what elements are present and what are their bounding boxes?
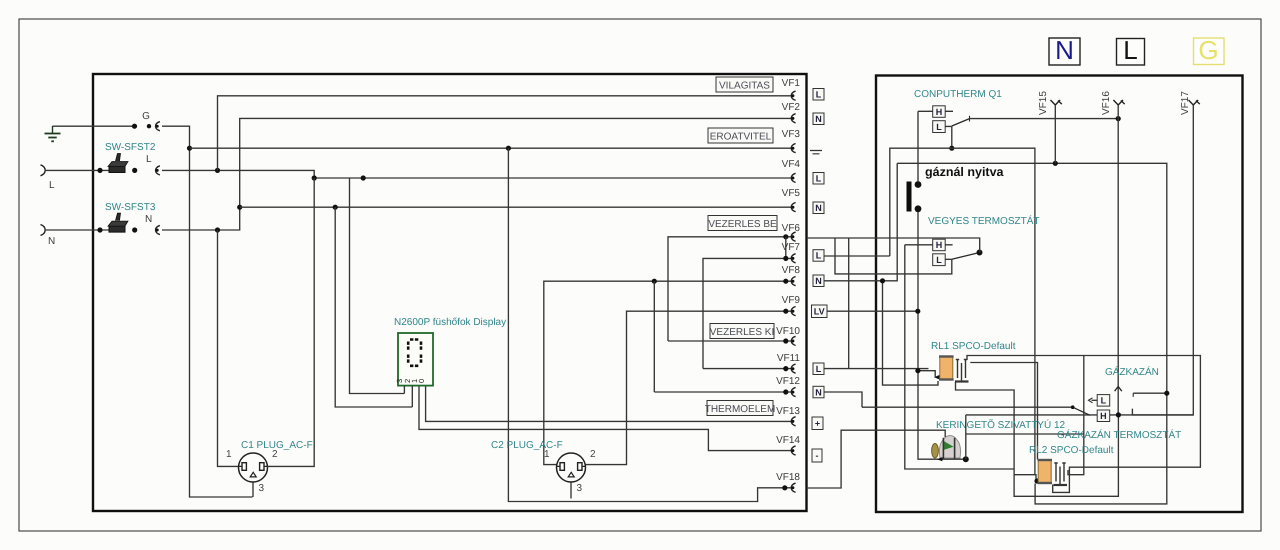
wire: VF7L net across top (y148): [890, 148, 1035, 475]
minus box VF14: [812, 449, 822, 462]
L box: [933, 125, 952, 127]
wire: pump top feed from VF18: [807, 430, 946, 488]
L terminal box (top right): [1117, 35, 1145, 65]
node on y148: [949, 146, 954, 151]
wire: C1 pin2 riser (L net): [267, 178, 314, 466]
svg-text:H: H: [1100, 411, 1107, 421]
svg-text:3: 3: [259, 483, 265, 494]
wire: VEGYES H drop: [905, 245, 1014, 469]
svg-text:EROATVITEL: EROATVITEL: [710, 132, 772, 143]
node VF11: [783, 366, 788, 371]
wire: G net to x189.5 down to bottom: [162, 126, 253, 497]
svg-text:SW-SFST2: SW-SFST2: [105, 142, 156, 153]
earth mark VF3: [810, 151, 822, 154]
svg-text:L: L: [49, 180, 55, 191]
wire: VF18 riser from G net: [508, 148, 791, 501]
ground symbol (earth, top left): [45, 126, 61, 141]
plug C1 PLUG_AC-F: [226, 440, 313, 494]
VF16 terminal: [1101, 91, 1125, 415]
wire: branch to VF11 L: [848, 238, 850, 369]
svg-text:GÁZKAZÁN: GÁZKAZÁN: [1105, 366, 1159, 378]
wire: pump out riser to H wire: [965, 415, 967, 459]
svg-text:VILAGITAS: VILAGITAS: [719, 81, 770, 92]
L box VF7 (wired): [824, 255, 890, 257]
node: N/C1 junction: [215, 227, 220, 232]
connector at G wire: [156, 122, 160, 131]
VF17 terminal: [1132, 91, 1199, 415]
node: display pin2 junction on N net: [333, 205, 338, 210]
switch SW-SFST2 (toggle): [97, 142, 155, 173]
plug C2 PLUG_AC-F: [491, 440, 596, 494]
node VF6: [783, 234, 788, 239]
wire: RL2 contact NO riser: [1068, 356, 1084, 475]
gaznal nyitva contact: [907, 165, 1005, 212]
svg-text:L: L: [1101, 396, 1107, 406]
wire: VEGYES common from gap: [807, 238, 980, 253]
svg-text:VF7: VF7: [782, 242, 801, 253]
svg-text:1: 1: [226, 449, 232, 460]
node: VF3/VF18 junction: [506, 146, 511, 151]
VF7 connector: [791, 254, 795, 263]
wire: RL1 top contact a: [967, 356, 1200, 493]
VF8 connector: [791, 277, 795, 286]
wire: VF9 net to C2 pin2: [586, 311, 792, 464]
wire: L common drop: [951, 126, 953, 148]
svg-text:VF12: VF12: [776, 376, 800, 387]
svg-text:N: N: [145, 214, 152, 225]
wire: L net to VF4 row: [162, 170, 794, 178]
label box VILAGITAS: [716, 77, 773, 92]
wire: VF7 net: [703, 258, 791, 368]
svg-text:RL2 SPCO-Default: RL2 SPCO-Default: [1029, 445, 1114, 456]
svg-text:LV: LV: [814, 307, 825, 317]
svg-text:N: N: [815, 203, 822, 213]
node: G junction at y148: [187, 146, 192, 151]
svg-text:N2600P füshőfok Display: N2600P füshőfok Display: [394, 317, 506, 328]
svg-text:GÁZKAZÁN TERMOSZTÁT: GÁZKAZÁN TERMOSZTÁT: [1057, 429, 1181, 441]
node VF12: [783, 389, 788, 394]
VF3 connector: [791, 144, 795, 153]
svg-text:1: 1: [544, 449, 550, 460]
wire: VF6-VF7 link: [785, 237, 787, 259]
left block border: [93, 74, 807, 511]
svg-text:2: 2: [272, 449, 278, 460]
node VF16 top: [1116, 116, 1121, 121]
svg-text:-: -: [816, 451, 819, 461]
svg-text:VF18: VF18: [776, 472, 800, 483]
wire: VF12 net: [654, 391, 791, 393]
wire: RL2 coil-left loop: [1014, 475, 1036, 480]
wire: gas contact top riser: [917, 111, 919, 181]
wire: VF8 net to C2 pin1: [544, 281, 792, 464]
input connector N (left edge): [41, 225, 56, 248]
relay RL2 SPCO-Default: [1029, 445, 1114, 485]
node VF8 branch: [652, 279, 657, 284]
node: VF18 dot: [782, 485, 787, 490]
svg-text:L: L: [816, 364, 822, 374]
svg-text:VF9: VF9: [782, 295, 801, 306]
L box VF1: [813, 89, 824, 101]
L box: [945, 258, 952, 260]
svg-text:L: L: [816, 174, 822, 184]
svg-text:VF11: VF11: [777, 353, 801, 364]
svg-text:VF4: VF4: [782, 159, 801, 170]
svg-text:N: N: [815, 276, 822, 286]
connector at N wire: [156, 225, 160, 234]
node VF9: [783, 309, 788, 314]
wire: switch out to VF16: [970, 118, 1118, 120]
pump KERINGETO SZIVATTYU 12: [932, 419, 1066, 461]
wire: VF14 net from display pin3: [419, 386, 792, 451]
svg-text:G: G: [1198, 35, 1218, 65]
svg-text:L: L: [936, 255, 942, 265]
VF1 connector: [791, 91, 795, 100]
svg-text:2: 2: [590, 449, 596, 460]
VF4 connector: [791, 173, 795, 182]
svg-text:C2 PLUG_AC-F: C2 PLUG_AC-F: [491, 440, 563, 451]
svg-text:VF10: VF10: [776, 326, 800, 337]
LV box VF9 (wired): [827, 310, 918, 312]
svg-text:0: 0: [417, 379, 426, 383]
wire: RL1 coil bottom-left feed from N net: [883, 281, 939, 385]
wire: RL1 top contact b: [970, 363, 1037, 460]
svg-text:VEGYES TERMOSZTÁT: VEGYES TERMOSZTÁT: [928, 215, 1040, 227]
VF11 connector: [791, 364, 795, 373]
svg-text:VF1: VF1: [782, 78, 801, 89]
display N2600P: [394, 317, 506, 386]
plus box VF13: [812, 417, 823, 430]
L box VF4: [813, 173, 824, 185]
node: floating dot on L net: [361, 175, 366, 180]
VF10 connector: [791, 336, 795, 345]
blade: [952, 119, 970, 126]
wire: branch to L contact loop: [835, 238, 952, 274]
input connector L (left edge): [41, 165, 56, 191]
wire: C1 pin3 drop: [252, 483, 254, 498]
svg-text:VF2: VF2: [782, 102, 801, 113]
wire: C1 pin1 drop: [218, 230, 240, 466]
switch SW-SFST3 (toggle): [97, 202, 155, 233]
wire: boiler H wire: [966, 414, 1194, 416]
node pump out: [963, 456, 969, 462]
N box VF8 (wired): [824, 163, 897, 280]
wire: VF1 riser: [218, 96, 795, 171]
VF13 connector: [791, 417, 795, 426]
svg-text:CONPUTHERM Q1: CONPUTHERM Q1: [914, 89, 1002, 100]
wire: VF8-VF12 drop: [653, 281, 655, 392]
wire: N net to riser: [162, 118, 794, 230]
node N-net / termosztat: [1164, 391, 1169, 396]
wire: L input to switch: [45, 169, 110, 171]
label box EROATVITEL: [708, 128, 773, 143]
wire: N input to switch: [45, 229, 110, 231]
label box VEZERLES KI: [710, 324, 774, 339]
svg-text:VEZERLES KI: VEZERLES KI: [710, 327, 774, 338]
wire: ground feed to G switch: [53, 125, 135, 127]
H box: [918, 110, 953, 112]
svg-text:VF5: VF5: [782, 188, 801, 199]
svg-text:VF3: VF3: [782, 129, 801, 140]
node arrow base: [1116, 412, 1121, 417]
VF6 connector: [791, 232, 795, 241]
wire: N net y163 to VF15 and right drop: [897, 163, 1167, 504]
VF5 connector: [791, 203, 795, 212]
wire: G net to VF3: [190, 147, 795, 149]
relay RL1 SPCO-Default: [931, 341, 1016, 382]
wire: display pin2 riser: [335, 207, 412, 407]
label box VEZERLES BE: [708, 216, 777, 231]
node VF8: [783, 279, 788, 284]
wire: VF10 net: [668, 340, 791, 342]
wire: C2 pin3 stub: [570, 483, 572, 499]
node: L/VF1 junction: [215, 168, 220, 173]
svg-text:VF16: VF16: [1101, 91, 1112, 115]
VF2 connector: [791, 114, 795, 123]
svg-text:N: N: [815, 387, 822, 397]
GAZKAZAN boiler arrow: [1105, 366, 1159, 391]
right block border: [876, 76, 1243, 513]
H box: [905, 244, 953, 246]
VF15 terminal: [1038, 91, 1062, 164]
wire: pump link: [966, 433, 1084, 435]
svg-text:KERINGETÕ SZIVATTYÚ 12: KERINGETÕ SZIVATTYÚ 12: [936, 419, 1066, 431]
connector at L wire: [156, 166, 160, 175]
node VF10: [783, 338, 788, 343]
G terminal box (top right): [1194, 35, 1225, 65]
wire: RL1 contact common staircase: [956, 382, 1119, 496]
svg-text:N: N: [815, 114, 822, 124]
svg-text:L: L: [816, 251, 822, 261]
VF14 connector: [791, 446, 795, 455]
node VF7: [783, 256, 788, 261]
svg-text:RL1 SPCO-Default: RL1 SPCO-Default: [931, 341, 1016, 352]
svg-text:VF15: VF15: [1038, 91, 1049, 115]
VF connector column: [705, 77, 929, 492]
svg-text:L: L: [936, 122, 942, 132]
VF12 connector: [791, 387, 795, 396]
svg-text:VF17: VF17: [1180, 91, 1191, 115]
svg-text:+: +: [815, 419, 820, 429]
wire: N net to VF5: [240, 206, 794, 208]
svg-text:3: 3: [577, 483, 583, 494]
node VF15 junction: [1053, 161, 1058, 166]
L box VF11 (wired): [824, 368, 929, 370]
wire: RL1 coil top-left feed from LV net: [918, 371, 935, 378]
svg-text:N: N: [48, 236, 55, 247]
label box THERMOELEM: [707, 401, 773, 416]
wire: VF11 net: [703, 368, 791, 370]
display pin stubs: [404, 386, 412, 407]
GAZKAZAN TERMOSZTAT wire: [1133, 392, 1167, 394]
VEGYES TERMOSZTAT: [905, 215, 1040, 266]
svg-text:VEZERLES BE: VEZERLES BE: [708, 219, 777, 230]
svg-text:VF8: VF8: [782, 265, 801, 276]
svg-text:VF13: VF13: [776, 406, 800, 417]
svg-text:L: L: [816, 90, 822, 100]
N box VF5: [813, 202, 824, 214]
wire: VF13 net from display pin4: [426, 386, 792, 422]
svg-text:L: L: [1123, 35, 1137, 65]
svg-text:VF6: VF6: [782, 223, 801, 234]
svg-text:THERMOELEM: THERMOELEM: [705, 404, 776, 415]
wire: display pin1 riser from L net: [350, 178, 405, 394]
VF9 connector: [791, 307, 795, 316]
node: N/VF5 junction: [237, 205, 242, 210]
GAZKAZAN switch L/H: [862, 395, 1110, 422]
wire: VF6 net (VEZERLES BE): [668, 237, 791, 341]
svg-text:N: N: [1055, 35, 1074, 65]
wire: gas contact bottom to pump: [918, 212, 966, 459]
svg-text:H: H: [936, 107, 943, 117]
svg-text:SW-SFST3: SW-SFST3: [105, 202, 156, 213]
node VF9 junction: [915, 309, 920, 314]
blade: [952, 253, 980, 260]
svg-text:gáznál nyitva: gáznál nyitva: [925, 165, 1005, 179]
COMPUTHERM Q1: [914, 89, 1002, 133]
VF18 connector: [791, 483, 795, 492]
N terminal box (top right): [1049, 35, 1080, 65]
N box VF12 (wired): [824, 392, 862, 407]
svg-text:G: G: [142, 111, 150, 122]
N box VF2: [813, 113, 824, 125]
switch G (fuse contacts): [132, 111, 151, 129]
svg-text:L: L: [146, 154, 152, 165]
node: L step dot: [312, 175, 317, 180]
svg-text:H: H: [936, 240, 943, 250]
svg-text:VF14: VF14: [776, 435, 800, 446]
